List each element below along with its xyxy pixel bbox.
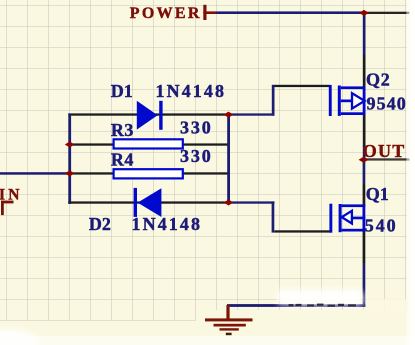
- junction node R4-left: [65, 170, 75, 176]
- wire Q2 drain navy: [363, 12, 366, 55]
- wire Q1 gate horizontal black: [274, 230, 330, 232]
- svg-text:R3: R3: [111, 120, 134, 140]
- junction node OUT: [359, 157, 369, 163]
- pin Q2 drain black: [363, 55, 366, 87]
- svg-text:330: 330: [180, 118, 213, 138]
- ground: [205, 305, 253, 335]
- svg-text:Q1: Q1: [366, 184, 389, 204]
- svg-text:540: 540: [365, 215, 398, 235]
- white fade right edge: [407, 0, 415, 345]
- svg-text:330: 330: [180, 146, 213, 166]
- wire D1 row black: [68, 113, 228, 115]
- svg-text:1N4148: 1N4148: [156, 81, 227, 101]
- pin Q2 source black: [363, 114, 366, 147]
- svg-text:POWER: POWER: [130, 5, 202, 22]
- wire power rail navy: [216, 11, 365, 14]
- svg-text:D2: D2: [89, 214, 111, 234]
- transistor Q2 (P-MOSFET 9540): [329, 85, 366, 116]
- wire Q2 source to OUT navy: [363, 146, 366, 161]
- junction node R3-left: [65, 142, 75, 148]
- svg-text:D1: D1: [111, 81, 133, 101]
- wire bottom to ground: [227, 304, 365, 307]
- wire Q1 source navy: [363, 263, 366, 307]
- wire Q1 gate step vertical navy: [272, 201, 275, 232]
- wire left vertical navy: [68, 113, 71, 203]
- svg-text:1N4148: 1N4148: [132, 214, 203, 234]
- white fade bottom edge: [0, 336, 415, 345]
- white blob bottom-left: [0, 329, 38, 345]
- diode D1: [137, 101, 163, 130]
- pin Q1 source black: [363, 231, 366, 263]
- wire remnant dashes under smudge: [289, 304, 357, 307]
- svg-text:R4: R4: [111, 150, 134, 170]
- pin Q1 drain black: [363, 184, 366, 206]
- junction node D1-right: [224, 112, 234, 118]
- svg-text:Q2: Q2: [366, 69, 391, 89]
- junction node D2-right: [224, 200, 234, 206]
- wire R4 row black: [71, 172, 229, 174]
- wire IN navy: [0, 172, 71, 175]
- resistor R4: [114, 169, 183, 178]
- transistor Q1 (N-MOSFET 540): [329, 204, 365, 233]
- svg-text:OUT: OUT: [363, 141, 406, 161]
- wire Q2 gate run navy: [229, 113, 275, 115]
- wire power rail right black: [364, 12, 409, 14]
- power port stub wire: [203, 11, 216, 14]
- wire Q1 gate run navy: [229, 201, 275, 203]
- wire Q2 gate horizontal black: [275, 85, 331, 87]
- svg-text:9540: 9540: [367, 93, 407, 113]
- white smudge band over bottom wire: [278, 290, 366, 307]
- wire Q2 gate step vertical navy: [272, 85, 275, 116]
- junction node power: [359, 10, 369, 16]
- wire D2 row black: [68, 201, 228, 203]
- port IN: [0, 187, 23, 216]
- wire R3 row black: [71, 143, 229, 145]
- resistor R3: [114, 139, 183, 148]
- diode D2: [134, 188, 162, 217]
- wire right vertical navy: [227, 113, 230, 203]
- power port bar: [203, 5, 206, 20]
- wire OUT right: [364, 158, 410, 160]
- wire Q1 drain navy: [363, 160, 366, 184]
